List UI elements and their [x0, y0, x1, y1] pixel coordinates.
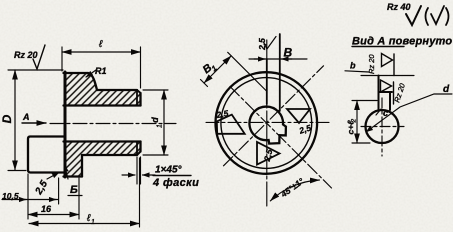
- body right end face upper: [139, 93, 141, 106]
- svg-text:d: d: [443, 84, 450, 95]
- right facet triangle: [287, 109, 310, 123]
- c+l2 ext top: [352, 100, 377, 102]
- marker B leader: [65, 165, 69, 179]
- dim d1 ext bottom: [143, 154, 168, 156]
- body top edge: [97, 89, 137, 91]
- top right chamfer: [137, 90, 141, 93]
- c+l2 dim line: [356, 101, 358, 144]
- title underline: [352, 46, 404, 48]
- slot right edge: [279, 34, 281, 111]
- header check: [406, 6, 421, 25]
- view arrow A: [22, 122, 46, 124]
- dim l ext left: [61, 47, 63, 71]
- dim D line: [14, 70, 16, 170]
- svg-text:10,5: 10,5: [2, 191, 19, 201]
- bore bottom edge: [64, 140, 141, 142]
- body bottom edge: [82, 154, 137, 156]
- chamfer dim arrows: [122, 174, 135, 176]
- svg-text:1×45°: 1×45°: [155, 165, 183, 176]
- flange bottom edge: [64, 175, 83, 177]
- b underline: [345, 71, 369, 72]
- flange left face (thick): [64, 72, 67, 177]
- dim l1 line: [29, 223, 140, 225]
- small view centerline h: [361, 126, 404, 128]
- top tick: [264, 37, 277, 50]
- leader 2,5 boss: [47, 173, 59, 180]
- svg-text:Rz 20: Rz 20: [14, 50, 38, 60]
- svg-text:Б: Б: [70, 184, 78, 196]
- lower hatched section: [64, 142, 141, 177]
- dim B1 line: [204, 56, 231, 83]
- ext line flange face lower: [58, 178, 60, 204]
- dim l ext right: [140, 47, 142, 88]
- label B underline: [68, 195, 82, 197]
- svg-text:A: A: [22, 112, 30, 122]
- b dim shelf line: [361, 75, 414, 77]
- dim 10,5 arrow1: [19, 199, 26, 201]
- svg-text:Rz 40: Rz 40: [387, 2, 411, 12]
- top dim line: [249, 58, 307, 60]
- Rz20 surface line: [8, 69, 63, 71]
- svg-text:B: B: [284, 46, 293, 60]
- svg-text:R1: R1: [95, 66, 107, 76]
- inner circle: [221, 78, 312, 169]
- left facet: [217, 115, 245, 134]
- slot left edge: [266, 59, 268, 104]
- fillet R1: [88, 73, 97, 90]
- svg-text:2: 2: [351, 119, 358, 124]
- svg-text:Rz 20: Rz 20: [367, 54, 376, 74]
- body right end face lower: [139, 142, 141, 152]
- label c+l2: [346, 119, 358, 135]
- dim B1 ext tick lower: [201, 80, 208, 87]
- Rz20 tick: [33, 45, 45, 69]
- dim 10,5 line: [2, 199, 58, 201]
- bore top edge: [64, 104, 141, 106]
- R1 leader: [86, 70, 96, 77]
- top dim arrow left: [254, 58, 265, 60]
- dim d1 ext top: [143, 89, 168, 91]
- dim 10,5 arrow2: [49, 199, 56, 201]
- label B1: [201, 60, 219, 78]
- centerline diagonal tlbr: [230, 87, 332, 189]
- centerline horizontal: [206, 121, 330, 123]
- chamfer inner line lower: [136, 142, 138, 156]
- flange back face lower: [81, 155, 83, 177]
- svg-text:16: 16: [41, 204, 52, 214]
- header paren check: [426, 6, 449, 25]
- svg-text:4 фаски: 4 фаски: [152, 177, 199, 189]
- small view centerline v: [381, 98, 383, 156]
- tab left edge: [378, 76, 380, 111]
- label l1: [86, 213, 95, 226]
- ext line boss left: [27, 174, 29, 219]
- dim d1 line: [163, 90, 165, 155]
- outer circle: [215, 72, 317, 174]
- d leader: [366, 94, 452, 132]
- boss outline: [28, 137, 64, 173]
- flange top edge: [64, 72, 89, 74]
- svg-text:Вид А повернуто: Вид А повернуто: [352, 36, 452, 48]
- roughness symbol 1: [382, 54, 395, 76]
- svg-text:2,5: 2,5: [257, 38, 267, 51]
- top dim arrow right: [282, 58, 292, 60]
- chamfer fraction bar: [153, 175, 191, 177]
- dim D ext bottom: [8, 170, 26, 172]
- svg-text:b: b: [350, 61, 356, 71]
- small circle: [366, 110, 399, 143]
- angular dim arc: [270, 180, 319, 201]
- upper hatched section: [64, 73, 141, 106]
- ext line flange back: [78, 178, 80, 219]
- svg-text:1: 1: [157, 124, 164, 128]
- c tick: [376, 109, 381, 115]
- tab right edge: [389, 92, 391, 110]
- ext line l1 right: [139, 158, 141, 227]
- chamfer inner line upper: [136, 90, 138, 106]
- bottom facet triangle: [257, 142, 280, 165]
- dim l line: [62, 51, 141, 53]
- label d1: [150, 117, 164, 128]
- center hole with tab: [249, 107, 285, 144]
- centerline vertical: [266, 40, 268, 206]
- dim B1 ext line upper: [228, 52, 267, 91]
- centerline diagonal bltr: [224, 66, 324, 166]
- c+l2 ext bottom: [352, 142, 370, 144]
- bottom right chamfer: [137, 152, 141, 156]
- tab top edge: [379, 91, 393, 93]
- centerline left view: [50, 123, 176, 125]
- roughness symbol 2: [381, 80, 394, 104]
- svg-text:1: 1: [91, 219, 95, 226]
- chamfer dim ext lines: [136, 157, 138, 184]
- svg-text:D: D: [0, 114, 14, 123]
- svg-text:d: d: [150, 117, 160, 123]
- dim 16 line: [28, 214, 79, 216]
